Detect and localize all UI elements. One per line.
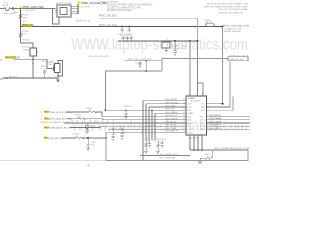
wire Q1 drain down <box>32 56 34 78</box>
capacitor C7021 C7022 on rail <box>121 26 123 28</box>
svg-text:2N7002: 2N7002 <box>49 64 57 66</box>
wire pin23 ACP <box>146 104 186 141</box>
svg-text:C7030: C7030 <box>135 62 142 64</box>
jack PJ1 <box>0 7 55 10</box>
svg-text:C7021 100V: C7021 100V <box>23 10 36 12</box>
wire net B main rail <box>21 26 223 28</box>
svg-text:2N7002: 2N7002 <box>23 49 31 51</box>
svg-text:A1C: A1C <box>14 11 19 14</box>
svg-text:ILIM: ILIM <box>188 110 192 112</box>
svg-text:AS PER LAYOUT RULE: AS PER LAYOUT RULE <box>107 9 132 12</box>
wire gate net <box>47 59 54 68</box>
svg-text:CHG_HIDRV: CHG_HIDRV <box>209 115 221 117</box>
svg-text:0.1U 100K: 0.1U 100K <box>155 141 165 143</box>
svg-text:18: 18 <box>183 118 185 120</box>
svg-text:KEEP VIN TRACE WIDE AND SHORT: KEEP VIN TRACE WIDE AND SHORT 20MIL <box>204 5 249 8</box>
svg-text:NOTE 3 FOR ADP: NOTE 3 FOR ADP <box>100 0 119 3</box>
svg-text:0.1U: 0.1U <box>181 48 186 50</box>
wire pin19 SCL <box>102 116 186 118</box>
svg-text:PQ7015: PQ7015 <box>22 46 30 48</box>
svg-text:PPDC_VIN_F10A_CHGR: PPDC_VIN_F10A_CHGR <box>224 25 249 28</box>
svg-text:C7510: C7510 <box>145 140 151 142</box>
svg-text:CHG_PHASE: CHG_PHASE <box>209 117 222 120</box>
svg-text:1%: 1% <box>23 21 26 23</box>
signal row 5 <box>44 136 48 139</box>
svg-text:BQ24780S: BQ24780S <box>191 101 201 103</box>
wire net CHG_PHASE <box>207 119 251 121</box>
svg-text:19: 19 <box>183 115 185 117</box>
ground arrow <box>56 78 59 82</box>
transistor Q7020 <box>55 64 61 73</box>
wire pin18 SDA <box>103 119 186 121</box>
svg-text:PQ7015: PQ7015 <box>23 40 31 42</box>
IC bottom pins <box>190 135 202 150</box>
wire pin2 REGN <box>207 106 231 108</box>
svg-text:CHG_SDA_R: CHG_SDA_R <box>165 117 178 120</box>
capacitor C7040 below bus <box>162 42 170 48</box>
svg-text:CHG_LODRV: CHG_LODRV <box>209 121 222 123</box>
svg-text:C7521: C7521 <box>119 128 125 130</box>
svg-text:PJ7000 MOLEX: PJ7000 MOLEX <box>76 6 92 8</box>
wire pin24 ACDET with drop to ground stack <box>143 101 186 161</box>
svg-text:R7010: R7010 <box>23 31 30 33</box>
svg-text:ADPDET R7001: ADPDET R7001 <box>56 2 73 5</box>
node PPBU_ACIN highlight <box>20 6 23 8</box>
wire to IC top pin 1 <box>189 40 191 42</box>
cap under wire 110 <box>125 109 127 111</box>
svg-text:C7522 1U: C7522 1U <box>123 106 132 108</box>
svg-text:PPDC_VIN_F10A: PPDC_VIN_F10A <box>99 24 118 27</box>
wire pin3 BST <box>207 97 234 111</box>
svg-text:(CHG_SCL_R_CONN): (CHG_SCL_R_CONN) <box>49 112 72 114</box>
svg-text:100K: 100K <box>23 17 28 19</box>
node PPBU_VIN highlight <box>78 2 81 4</box>
junction dot <box>222 26 224 28</box>
svg-text:(CHG_SDA_R_CONN): (CHG_SDA_R_CONN) <box>49 118 72 121</box>
wire net CHG_SRN <box>207 128 251 130</box>
wire pin20 LEARN <box>155 113 186 140</box>
wire drain loop <box>58 61 63 79</box>
wire ACOK <box>14 58 47 60</box>
svg-text:17: 17 <box>183 122 185 124</box>
svg-text:ACDET_IN_R: ACDET_IN_R <box>76 19 90 22</box>
svg-text:24: 24 <box>183 99 185 101</box>
svg-text:WWW.laptop-schematics.com: WWW.laptop-schematics.com <box>71 37 248 54</box>
svg-text:CHG_CELL: CHG_CELL <box>165 106 176 108</box>
svg-text:(CHG_ACOK_EC_R): (CHG_ACOK_EC_R) <box>50 127 71 130</box>
wire to Q1 <box>21 43 34 48</box>
svg-text:SMBUS CLK DATA TO EC P30: SMBUS CLK DATA TO EC P30 <box>40 121 71 124</box>
wire to IC top pin 3 <box>198 83 204 96</box>
svg-text:CHG_COMP: CHG_COMP <box>165 128 177 130</box>
svg-text:CRITICAL NET SPACING: CRITICAL NET SPACING <box>218 11 243 14</box>
svg-text:GNDS: GNDS <box>188 132 194 134</box>
wire vertical from ACIN node <box>20 9 22 27</box>
long route wire <box>106 70 163 72</box>
wire bottom left rail <box>140 155 190 157</box>
wire right rail down <box>222 27 224 104</box>
svg-text:GND_CHGR_PAD: GND_CHGR_PAD <box>159 157 176 160</box>
svg-text:20: 20 <box>183 112 185 114</box>
svg-text:0.1U: 0.1U <box>91 145 96 147</box>
big return wire <box>106 132 248 160</box>
svg-text:GND PGND: GND PGND <box>188 137 199 139</box>
wire pin15 COMP <box>108 128 186 130</box>
svg-text:C7023 C7024: C7023 C7024 <box>120 35 133 37</box>
svg-text:PPDC_VIN_SNS: PPDC_VIN_SNS <box>99 15 117 17</box>
svg-text:CHG_ACOK: CHG_ACOK <box>165 121 177 124</box>
bottom rail <box>190 149 248 151</box>
wire net CHG_HIDRV <box>207 116 251 118</box>
svg-text:R7005: R7005 <box>23 15 30 17</box>
wire from label box down <box>207 61 231 107</box>
svg-text:CHG_VIN_SNS_RTN: CHG_VIN_SNS_RTN <box>88 56 110 58</box>
wire pin21 ILIM <box>106 110 187 140</box>
capacitor C7041 drop <box>174 40 176 42</box>
svg-text:R7501: R7501 <box>204 154 211 156</box>
svg-text:LEARN: LEARN <box>188 112 195 115</box>
svg-text:CHG_ACDET: CHG_ACDET <box>165 98 178 101</box>
junction at bottom rail <box>142 160 144 162</box>
svg-text:10K: 10K <box>23 34 27 36</box>
capacitors above bus <box>122 37 125 42</box>
svg-text:SCL: SCL <box>188 116 192 118</box>
cap stack under row 4 wire <box>112 129 114 131</box>
svg-text:CHG_INT_R: CHG_INT_R <box>165 125 177 127</box>
wire pin16 INT <box>100 125 186 127</box>
wire pin14 GNDS <box>106 131 186 133</box>
caps under wire D <box>139 61 142 68</box>
cap stack C7035 <box>86 138 89 151</box>
svg-text:C7520: C7520 <box>110 128 116 130</box>
svg-text:ACOK: ACOK <box>188 122 194 125</box>
svg-text:16: 16 <box>183 125 185 127</box>
sheet fold line <box>0 160 106 162</box>
svg-text:CHG_SCL_R: CHG_SCL_R <box>165 115 178 117</box>
svg-text:CHG_SRN_R: CHG_SRN_R <box>209 128 222 130</box>
svg-text:TO PAGE 31 CHGR: TO PAGE 31 CHGR <box>224 27 243 30</box>
wire pin1 VCC to input rail <box>207 103 223 105</box>
junction pin21 <box>151 109 153 111</box>
svg-text:ACIN: ACIN <box>3 4 9 7</box>
svg-text:CHG_VIN_SN: CHG_VIN_SN <box>165 102 178 104</box>
transistor Q7015 <box>30 48 37 56</box>
resistor stack R7010 <box>20 27 22 44</box>
wire pin22 ACN <box>149 107 186 141</box>
svg-text:PLACE C AT INPUT SIDE OF CHARG: PLACE C AT INPUT SIDE OF CHARGER IC <box>107 3 153 6</box>
svg-text:REG: REG <box>201 107 205 109</box>
svg-text:10U 35V: 10U 35V <box>172 48 180 50</box>
wire net CHG_SRP <box>207 125 251 127</box>
bus C <box>118 40 198 42</box>
svg-text:PPDC_VIN: PPDC_VIN <box>22 25 34 27</box>
svg-text:SENSE 10MOHM: SENSE 10MOHM <box>224 31 241 33</box>
svg-text:CLOSE TO CHARGER VCC PIN: CLOSE TO CHARGER VCC PIN <box>107 6 141 9</box>
svg-text:23: 23 <box>183 102 185 104</box>
wire jack branch <box>53 9 60 25</box>
svg-text:22: 22 <box>183 106 185 108</box>
svg-text:CHG_LEARN: CHG_LEARN <box>165 111 178 114</box>
svg-text:KEEP THERMAL PAD VIA GND PLANE: KEEP THERMAL PAD VIA GND PLANE <box>214 147 250 150</box>
signal row 4 <box>44 126 49 129</box>
net label highlight PPDC_VIN <box>22 24 32 27</box>
junction dot <box>20 8 22 10</box>
svg-text:NOTE: PLACE BULK CAPS NEAR CON: NOTE: PLACE BULK CAPS NEAR CONN <box>207 3 249 6</box>
wire to label box <box>162 58 228 60</box>
junction VCC node <box>222 103 224 105</box>
svg-text:CHG_SRP_R: CHG_SRP_R <box>209 125 222 127</box>
wire net CHG_LODRV <box>207 122 251 124</box>
svg-text:PPDC_ACIN_F10A: PPDC_ACIN_F10A <box>23 6 44 9</box>
svg-text:P_GND_SENSE_RTN: P_GND_SENSE_RTN <box>157 154 178 156</box>
wire to IC top pin 2 <box>197 41 199 96</box>
resistor R7005 <box>19 14 22 19</box>
svg-text:15: 15 <box>183 128 185 130</box>
svg-text:21: 21 <box>183 109 185 111</box>
svg-text:CHG_GND_S: CHG_GND_S <box>165 131 178 133</box>
svg-text:(CHG_INT_R): (CHG_INT_R) <box>48 138 62 140</box>
diode D7001 <box>86 122 88 124</box>
svg-text:14: 14 <box>183 131 185 133</box>
wire pin17 ACOK <box>64 122 186 124</box>
svg-text:COMP: COMP <box>188 129 194 131</box>
net label highlight ACOK <box>5 56 17 59</box>
svg-text:SMB_BS_SCL: SMB_BS_SCL <box>230 59 245 61</box>
pin bus with junctions <box>75 7 79 14</box>
svg-text:CHG_ILIM: CHG_ILIM <box>165 109 175 111</box>
svg-text:USE 2OZ COPPER FOR RAIL: USE 2OZ COPPER FOR RAIL <box>218 8 249 11</box>
